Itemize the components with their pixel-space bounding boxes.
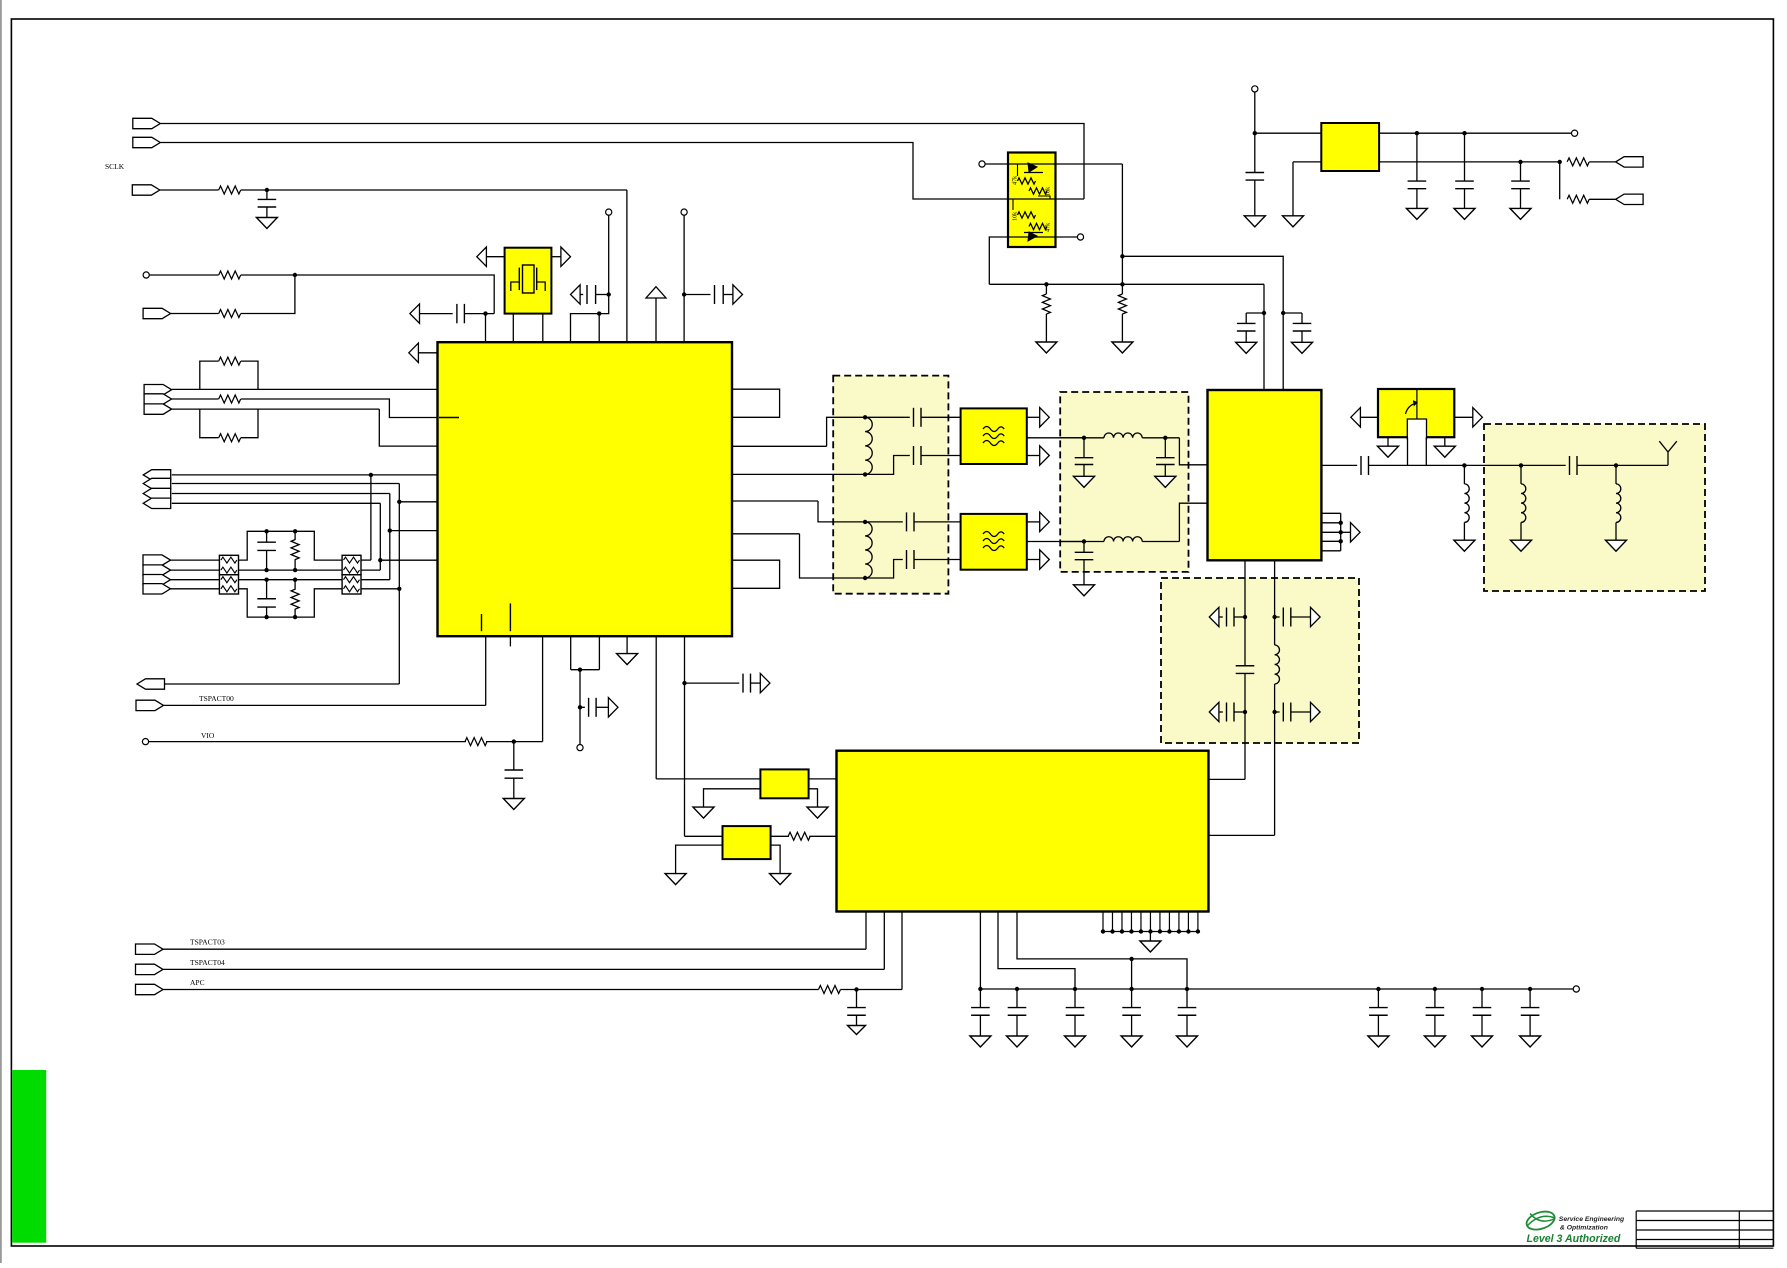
junction — [264, 578, 268, 582]
capacitor — [1426, 1014, 1445, 1016]
capacitor C (SCLK) — [266, 190, 268, 200]
wire pin — [1197, 912, 1199, 932]
resistor R APC — [819, 986, 841, 994]
wire — [809, 789, 818, 807]
terminal — [979, 161, 985, 167]
title block table — [1636, 1211, 1773, 1248]
wire rail to block — [655, 636, 657, 779]
connector flag — [1616, 157, 1644, 167]
terminal — [1077, 234, 1083, 240]
junction — [1262, 311, 1266, 315]
wire pin — [1121, 912, 1123, 932]
wire — [149, 274, 218, 276]
wire rail to block — [684, 636, 686, 836]
wire pin — [1130, 912, 1132, 932]
scan edge strip — [0, 0, 2, 1263]
wire — [171, 588, 220, 590]
resistor R — [219, 271, 241, 279]
wire — [1275, 616, 1280, 618]
junction — [1253, 131, 1257, 135]
capacitor C match — [1083, 438, 1085, 458]
junction — [1339, 530, 1343, 534]
ground — [1424, 1036, 1445, 1047]
wire to IC pin — [399, 501, 437, 503]
junction — [1558, 160, 1562, 164]
junction — [378, 558, 382, 562]
connector flag — [143, 498, 171, 508]
wire to IC pin — [390, 530, 438, 532]
wire row4 via bottom rail — [239, 589, 343, 617]
wire — [914, 521, 961, 523]
junction — [293, 578, 297, 582]
wire — [420, 313, 453, 315]
ground — [1177, 1036, 1198, 1047]
wire vertical — [389, 494, 391, 580]
junction — [1177, 929, 1181, 933]
wire — [1142, 541, 1179, 543]
ground — [1606, 540, 1627, 551]
connector flag — [143, 565, 171, 575]
crystal pin wire — [542, 314, 544, 343]
junction — [1196, 929, 1200, 933]
wire — [1379, 132, 1571, 134]
junction — [265, 188, 269, 192]
junction — [863, 472, 867, 476]
connector X1 pin flag — [133, 118, 161, 128]
switch curved arrow — [1406, 404, 1416, 415]
junction — [1044, 282, 1048, 286]
transistor Q2 base bar — [1024, 232, 1043, 234]
svg-text:47k: 47k — [1012, 175, 1019, 185]
resistor R — [1567, 195, 1589, 203]
wire — [1341, 531, 1351, 533]
wire — [865, 456, 910, 475]
wire APC — [163, 989, 819, 991]
junction — [264, 568, 268, 572]
connector flag — [144, 385, 172, 395]
wire to PA pin — [1263, 284, 1265, 390]
wire — [985, 163, 1008, 165]
svg-text:SCLK: SCLK — [105, 162, 125, 171]
wire — [865, 912, 867, 950]
svg-text:TSPACT04: TSPACT04 — [190, 958, 225, 967]
resistor pack R612 — [342, 555, 361, 574]
wire — [1616, 464, 1668, 466]
wire filter1 out — [1027, 437, 1084, 439]
wire — [1387, 437, 1389, 446]
wire — [1219, 711, 1223, 713]
wire filter2 out — [1027, 541, 1084, 543]
capacitor C balun — [906, 550, 908, 569]
connector SCLK flag — [132, 185, 160, 195]
capacitor C APC — [856, 990, 858, 1008]
ground — [1511, 540, 1532, 551]
wire TSPACT03 — [163, 948, 866, 950]
arrow — [1311, 702, 1321, 721]
capacitor — [971, 1014, 990, 1016]
ground — [1510, 208, 1531, 219]
connector flag — [137, 679, 165, 689]
capacitor — [257, 606, 276, 608]
resistor R VIO — [465, 738, 487, 746]
junction — [293, 615, 297, 619]
terminal — [1573, 986, 1579, 992]
IC pin stub — [509, 636, 511, 646]
arrow — [1209, 607, 1219, 626]
wire — [979, 912, 981, 990]
ground — [665, 874, 686, 885]
resistor — [1042, 294, 1050, 314]
connector flag — [143, 308, 171, 318]
wire — [361, 588, 399, 590]
wire — [485, 636, 487, 705]
junction — [512, 739, 516, 743]
junction — [264, 529, 268, 533]
arrow — [760, 673, 770, 692]
capacitor C match — [1164, 438, 1166, 458]
ground — [1283, 216, 1304, 227]
inductor L match1 — [1104, 433, 1142, 438]
wire — [800, 534, 866, 578]
capacitor C decouple — [1186, 989, 1188, 1008]
ground — [1121, 1036, 1142, 1047]
wire — [596, 706, 608, 708]
wire to PA — [1179, 438, 1207, 465]
capacitor — [1369, 1014, 1388, 1016]
wire — [685, 835, 723, 837]
wire — [841, 989, 903, 991]
transistor Q2 arrow — [1028, 232, 1037, 241]
resistor R ladder — [294, 580, 296, 590]
capacitor — [257, 549, 276, 551]
wire — [418, 352, 437, 354]
ground — [1454, 540, 1475, 551]
svg-text:& Optimization: & Optimization — [1560, 1225, 1608, 1232]
connector flag — [143, 470, 171, 480]
wire PA pin — [1321, 531, 1340, 533]
junction — [863, 415, 867, 419]
green revision bar — [12, 1070, 46, 1243]
wire — [1255, 132, 1322, 134]
capacitor — [1455, 188, 1474, 190]
switch common wire — [1416, 389, 1418, 419]
terminal VBATT — [1252, 86, 1258, 92]
ground — [1406, 208, 1427, 219]
transistor Q1 base bar — [1024, 172, 1043, 174]
IC internal tick — [509, 603, 511, 631]
capacitor — [1066, 1014, 1085, 1016]
junction — [863, 576, 867, 580]
wire row1 via top rail — [239, 531, 343, 560]
junction — [854, 987, 858, 991]
wire — [809, 835, 836, 837]
ground — [1454, 208, 1475, 219]
wire — [901, 912, 903, 990]
wire — [1027, 521, 1040, 523]
resistor in pack — [344, 567, 360, 573]
svg-text:VIO: VIO — [201, 731, 215, 740]
resistor pack R611 — [219, 575, 238, 594]
crystal pin wire — [512, 314, 514, 343]
wire IC bottom U stub — [571, 636, 600, 670]
capacitor C — [1301, 313, 1303, 324]
capacitor — [1237, 330, 1256, 332]
inductor L balun1 — [865, 417, 872, 474]
capacitor C — [1254, 133, 1256, 172]
wire — [241, 361, 258, 389]
dashed highlight box balun — [833, 376, 948, 594]
wire bias rail — [989, 283, 1264, 285]
wire — [171, 559, 220, 561]
IC internal pin tick — [439, 417, 459, 419]
SAW filter Z600 — [961, 408, 1027, 464]
antenna switch block V700 — [1378, 389, 1454, 437]
capacitor C — [1464, 133, 1466, 181]
arrow — [1351, 523, 1361, 542]
ground — [770, 874, 791, 885]
wire pin — [1149, 912, 1151, 932]
capacitor — [1408, 188, 1427, 190]
wire row to IC — [172, 388, 438, 390]
wire pin — [1187, 912, 1189, 932]
inductor — [1616, 484, 1621, 523]
capacitor C — [1520, 162, 1522, 181]
junction — [1129, 987, 1133, 991]
wire — [542, 636, 544, 741]
wire PA pin — [1321, 540, 1340, 542]
wire — [1060, 541, 1104, 543]
wire to divider — [989, 237, 1008, 284]
ground — [1140, 941, 1161, 952]
junction — [483, 311, 487, 315]
junction — [388, 528, 392, 532]
capacitor C — [742, 674, 744, 693]
wire — [361, 579, 390, 581]
wire — [1275, 711, 1280, 713]
ground — [1155, 476, 1176, 487]
arrow — [1040, 446, 1050, 465]
wire — [160, 189, 219, 191]
wire TSPACT00 — [164, 704, 486, 706]
junction — [1148, 929, 1152, 933]
capacitor C ladder — [266, 580, 268, 599]
capacitor C out — [1360, 456, 1362, 475]
capacitor C decouple — [1377, 989, 1379, 1008]
wire — [827, 417, 866, 446]
wire — [464, 313, 494, 315]
arrow — [1311, 607, 1321, 626]
ground — [1244, 216, 1265, 227]
resistor in pack — [344, 557, 360, 563]
wire to control block — [1209, 834, 1275, 836]
capacitor C balun — [913, 446, 915, 465]
wire — [1454, 416, 1473, 418]
wire — [1027, 416, 1040, 418]
connector X1 pin flag — [133, 137, 161, 147]
terminal — [681, 209, 687, 215]
internal wire — [1012, 199, 1014, 210]
junction — [682, 292, 686, 296]
ground — [503, 799, 524, 810]
wire — [171, 569, 220, 571]
arrow — [1473, 408, 1483, 427]
wire pin — [1168, 912, 1170, 932]
ground — [256, 218, 277, 229]
wire to IC pins — [571, 295, 609, 343]
connector flag — [143, 488, 171, 498]
wire — [1027, 455, 1040, 457]
wire — [1254, 92, 1256, 133]
ground — [1065, 1036, 1086, 1047]
internal base wire — [1008, 163, 1056, 165]
wire — [751, 682, 761, 684]
junction — [1528, 987, 1532, 991]
wire net1 to transistor block — [160, 124, 1084, 200]
wire — [1027, 559, 1040, 561]
capacitor C decouple — [1131, 989, 1133, 1008]
wire — [1234, 616, 1245, 618]
connector TSPACT00 flag — [136, 700, 164, 710]
ground — [1236, 342, 1257, 353]
resistor 10k — [1029, 188, 1047, 194]
wire — [1060, 437, 1104, 439]
wire — [1521, 464, 1566, 466]
internal collector rail — [1008, 198, 1056, 200]
connector APC flag — [136, 984, 164, 994]
inductor — [1521, 484, 1526, 523]
junction — [1272, 710, 1276, 714]
capacitor C balun — [913, 408, 915, 427]
junction — [1167, 929, 1171, 933]
connector flag — [1616, 194, 1644, 204]
wire decoupling bus — [980, 988, 1576, 990]
wire pin — [1159, 912, 1161, 932]
wire — [596, 294, 609, 296]
svg-text:47k: 47k — [1045, 222, 1052, 232]
capacitor — [1008, 1014, 1027, 1016]
wire VIO — [149, 741, 466, 743]
switch notch — [1407, 419, 1426, 440]
arrow — [646, 287, 666, 298]
wire pin — [1140, 912, 1142, 932]
switch notch outline — [1407, 419, 1426, 440]
junction — [293, 568, 297, 572]
inductor L shunt — [1463, 465, 1465, 484]
svg-text:TSPACT00: TSPACT00 — [199, 694, 234, 703]
ground — [807, 807, 828, 818]
switch arrow head — [1414, 401, 1418, 405]
resistor 47k — [1018, 178, 1036, 184]
wire — [1589, 198, 1615, 200]
junction — [1339, 521, 1343, 525]
junction — [397, 587, 401, 591]
wire — [1559, 162, 1561, 199]
resistor in pack — [344, 577, 360, 583]
junction — [1110, 929, 1114, 933]
wire vertical — [379, 503, 381, 570]
junction — [578, 668, 582, 672]
capacitor — [1075, 559, 1094, 561]
ground — [617, 654, 638, 665]
junction — [397, 500, 401, 504]
wire I/Q row4 — [172, 502, 380, 504]
antenna symbol — [1659, 441, 1677, 465]
wire balun2 in2 — [732, 533, 800, 535]
dashed highlight box PA feedback — [1161, 578, 1359, 743]
wire IC pin stub — [655, 298, 657, 342]
ground — [693, 807, 714, 818]
wire — [809, 778, 837, 780]
resistor 47k — [1029, 223, 1047, 229]
transistor Q1 arrow — [1028, 163, 1037, 172]
resistor R to gnd — [1045, 284, 1047, 294]
wire — [771, 835, 789, 837]
connector flag — [144, 394, 172, 404]
resistor R ladder — [294, 531, 296, 540]
terminal — [1572, 130, 1578, 136]
junction — [1129, 929, 1133, 933]
crystal block B600 — [505, 248, 552, 314]
wire pin — [1102, 912, 1104, 932]
wire to IC pin — [241, 399, 438, 418]
ground — [1112, 342, 1133, 353]
capacitor C VIO — [513, 742, 515, 770]
junction — [1462, 463, 1466, 467]
IC internal tick — [481, 614, 483, 631]
capacitor C — [1226, 703, 1228, 722]
dashed highlight box LC match — [1060, 392, 1188, 572]
junction — [1158, 929, 1162, 933]
capacitor C ant — [1569, 456, 1571, 475]
wire vertical — [398, 484, 400, 685]
wire — [865, 416, 910, 418]
junction — [1243, 615, 1247, 619]
wire — [704, 789, 761, 807]
wire — [656, 778, 760, 780]
capacitor C — [1282, 608, 1284, 627]
capacitor — [1246, 179, 1265, 181]
capacitor C — [1245, 313, 1247, 324]
junction — [1163, 436, 1167, 440]
junction — [1185, 987, 1189, 991]
wire — [1142, 437, 1179, 439]
wire — [865, 560, 903, 579]
junction — [293, 529, 297, 533]
transistor pair block V600 — [1008, 153, 1056, 248]
svg-text:Level 3 Authorized: Level 3 Authorized — [1527, 1233, 1621, 1245]
wire — [723, 294, 733, 296]
wire — [921, 455, 961, 457]
inductor L match2 — [1104, 537, 1142, 542]
svg-text:TSPACT03: TSPACT03 — [190, 938, 225, 947]
wire I/Q row2 — [172, 483, 399, 485]
junction — [597, 311, 601, 315]
capacitor — [1236, 672, 1255, 674]
wire pin — [1111, 912, 1113, 932]
wire bundle — [1340, 513, 1342, 551]
wire PA out — [1321, 464, 1357, 466]
terminal — [606, 209, 612, 215]
junction — [1186, 929, 1190, 933]
resistor R — [788, 832, 810, 840]
wire switch to line — [1425, 437, 1427, 465]
wire stub — [1246, 312, 1264, 314]
SAW filter Z601 — [961, 514, 1027, 570]
wire balun in2 — [732, 473, 865, 475]
wire to IC pin — [379, 409, 437, 446]
capacitor C balun — [906, 512, 908, 531]
junction — [369, 473, 373, 477]
